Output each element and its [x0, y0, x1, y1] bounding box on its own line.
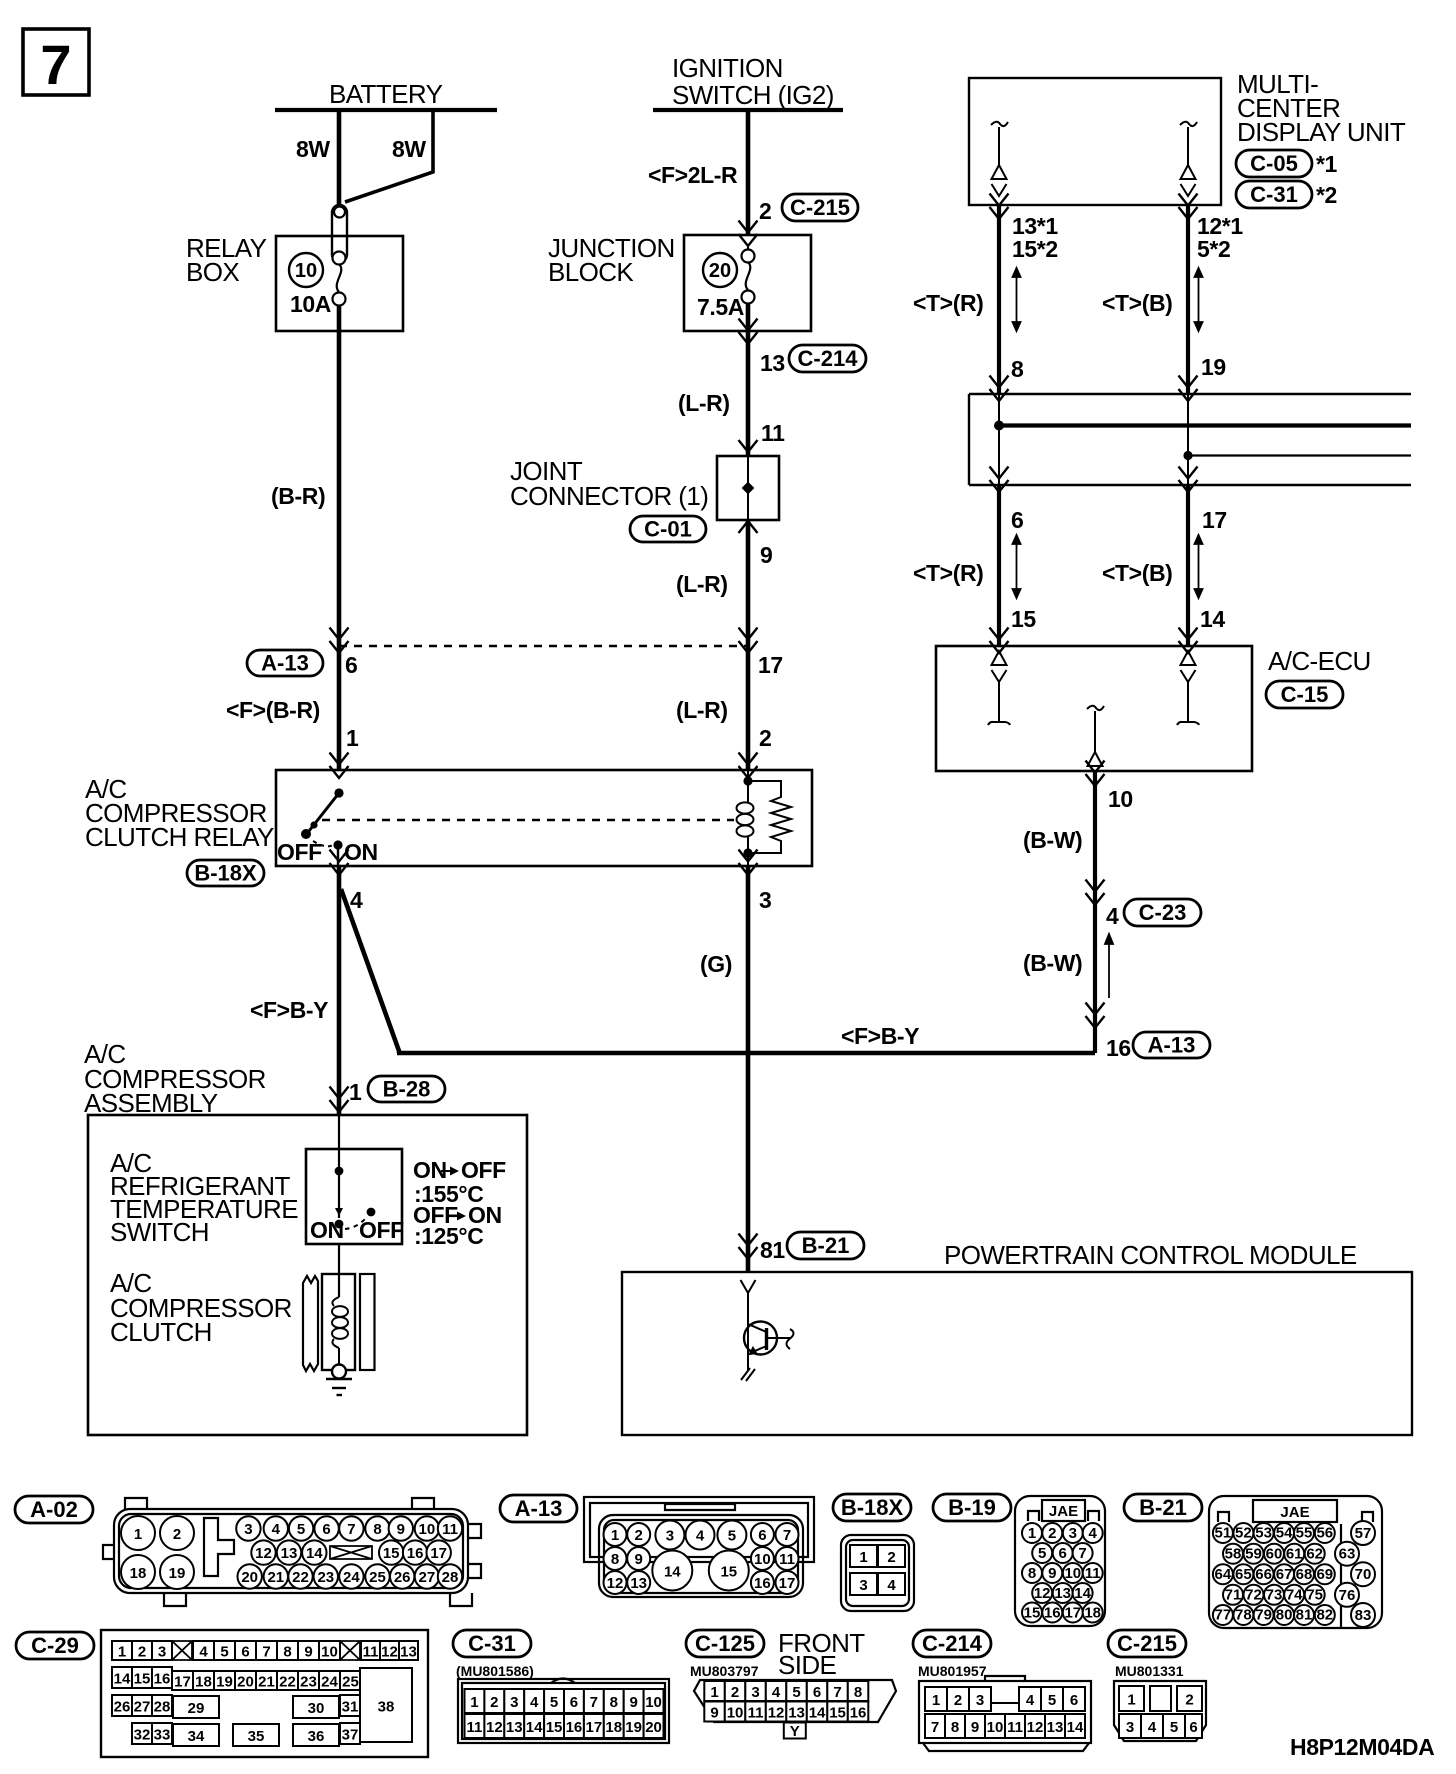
twisted pair arrow left	[1013, 268, 1021, 331]
svg-text:76: 76	[1339, 1587, 1356, 1604]
svg-text:A/C-ECU: A/C-ECU	[1268, 646, 1371, 676]
svg-text:(L-R): (L-R)	[676, 697, 728, 723]
svg-text:12: 12	[486, 1719, 503, 1736]
svg-text:10: 10	[987, 1719, 1004, 1736]
svg-text:2: 2	[759, 725, 771, 751]
svg-text:<T>(R): <T>(R)	[913, 290, 983, 316]
svg-text:MU801957: MU801957	[918, 1663, 987, 1679]
svg-text:2: 2	[138, 1643, 146, 1660]
svg-text:7: 7	[40, 33, 71, 96]
svg-text:9: 9	[760, 542, 772, 568]
wire B-R relay box to relay	[337, 305, 342, 771]
svg-text:4: 4	[530, 1694, 539, 1711]
svg-text:2: 2	[173, 1526, 181, 1543]
svg-text:51: 51	[1215, 1525, 1232, 1542]
wire L-R junction to joint connector	[746, 303, 751, 456]
svg-text:11: 11	[1007, 1719, 1023, 1736]
connector label A-13	[247, 650, 323, 676]
svg-text:C-29: C-29	[31, 1633, 79, 1658]
svg-text:26: 26	[114, 1698, 131, 1715]
joint connector box	[717, 456, 779, 520]
svg-text:1: 1	[932, 1692, 940, 1709]
svg-text:5: 5	[220, 1643, 228, 1660]
connector label A-02	[15, 1496, 93, 1523]
svg-text:81: 81	[760, 1237, 785, 1263]
svg-text:4: 4	[696, 1527, 705, 1544]
svg-text:18: 18	[130, 1565, 147, 1582]
wire MCDU right drop	[1186, 205, 1190, 394]
svg-text:C-125: C-125	[695, 1631, 755, 1656]
svg-text:B-19: B-19	[948, 1495, 996, 1520]
svg-text:C-15: C-15	[1281, 682, 1329, 707]
svg-text:33: 33	[154, 1726, 171, 1743]
relay ON contact	[333, 840, 342, 849]
svg-text:4: 4	[272, 1521, 281, 1538]
connector B-19 body	[1015, 1496, 1105, 1626]
fuse 10 circled	[289, 253, 323, 287]
svg-text:23: 23	[300, 1673, 317, 1690]
svg-text:64: 64	[1215, 1566, 1232, 1583]
A/C compressor clutch relay box	[276, 770, 812, 866]
svg-text:3: 3	[751, 1684, 759, 1701]
svg-text:66: 66	[1255, 1566, 1272, 1583]
svg-text:5: 5	[1048, 1692, 1056, 1709]
svg-text:73: 73	[1266, 1586, 1283, 1603]
svg-text:C-214: C-214	[798, 346, 859, 371]
svg-text:B-28: B-28	[383, 1077, 431, 1102]
svg-text:19: 19	[1201, 354, 1226, 380]
page number 7 box	[23, 29, 89, 96]
svg-text:32: 32	[134, 1726, 151, 1743]
svg-text:8W: 8W	[392, 136, 426, 162]
connector B-18X body	[841, 1535, 914, 1611]
svg-text:19: 19	[169, 1565, 186, 1582]
svg-text:8: 8	[373, 1521, 381, 1538]
wire into temp switch	[338, 1115, 340, 1171]
connector label B-18X	[833, 1494, 911, 1521]
clutch coil	[332, 1297, 348, 1364]
svg-text:2: 2	[759, 198, 771, 224]
svg-text:70: 70	[1355, 1566, 1372, 1583]
B-18X pins	[850, 1545, 905, 1595]
ground	[326, 1379, 352, 1395]
wires inside intermediate box	[998, 394, 1000, 485]
svg-text:5: 5	[297, 1521, 305, 1538]
svg-text:B-21: B-21	[802, 1233, 850, 1258]
svg-text:7: 7	[590, 1694, 598, 1711]
svg-text:H8P12M04DA: H8P12M04DA	[1290, 1734, 1434, 1760]
svg-text:17: 17	[1064, 1605, 1081, 1622]
A-13 inline connector dashed line	[339, 645, 748, 647]
svg-text:SWITCH (IG2): SWITCH (IG2)	[672, 80, 834, 110]
connector label C-01	[630, 516, 706, 542]
svg-text:18: 18	[195, 1673, 212, 1690]
svg-text:3: 3	[510, 1694, 518, 1711]
connector C-31 body	[458, 1679, 669, 1744]
svg-text:4: 4	[1106, 903, 1119, 929]
svg-text:10: 10	[321, 1643, 338, 1660]
svg-text:72: 72	[1245, 1586, 1262, 1603]
ignition bus	[653, 108, 843, 112]
svg-text:19: 19	[625, 1719, 642, 1736]
svg-text:BATTERY: BATTERY	[329, 79, 443, 109]
connector label B-21	[1124, 1494, 1202, 1521]
svg-text:62: 62	[1306, 1545, 1323, 1562]
svg-text:17: 17	[779, 1575, 796, 1592]
clutch ground terminal	[332, 1365, 346, 1379]
svg-text:22: 22	[292, 1569, 309, 1586]
svg-text:15*2: 15*2	[1012, 236, 1058, 262]
svg-text:Y: Y	[790, 1723, 800, 1740]
svg-text:15: 15	[1011, 606, 1036, 632]
svg-text:58: 58	[1225, 1545, 1242, 1562]
bus line to right 2	[1188, 454, 1411, 456]
svg-text:13: 13	[1047, 1719, 1064, 1736]
relay box	[276, 236, 403, 331]
connector crossing C-215	[739, 221, 758, 233]
svg-text:5: 5	[792, 1684, 800, 1701]
svg-text:9: 9	[971, 1719, 979, 1736]
svg-text:SIDE: SIDE	[778, 1650, 837, 1680]
svg-text:81: 81	[1296, 1607, 1313, 1624]
svg-text:11: 11	[442, 1521, 458, 1538]
svg-text:12: 12	[607, 1575, 624, 1592]
svg-text:18: 18	[605, 1719, 622, 1736]
joint node	[742, 482, 755, 495]
svg-text:16: 16	[1106, 1035, 1131, 1061]
svg-text:7: 7	[833, 1684, 841, 1701]
connector C-214 body	[919, 1676, 1091, 1751]
svg-text:(L-R): (L-R)	[678, 390, 730, 416]
svg-text:77: 77	[1215, 1607, 1232, 1624]
svg-text:1: 1	[118, 1643, 126, 1660]
svg-text:IGNITION: IGNITION	[672, 53, 783, 83]
svg-text:35: 35	[248, 1728, 265, 1745]
svg-text:10: 10	[727, 1704, 744, 1721]
svg-text:(L-R): (L-R)	[676, 571, 728, 597]
svg-text:63: 63	[1339, 1546, 1356, 1563]
svg-text:4: 4	[199, 1643, 208, 1660]
svg-text:30: 30	[308, 1700, 325, 1717]
B-19 pins	[1022, 1523, 1103, 1623]
connector label C-214	[913, 1630, 991, 1657]
svg-text:2: 2	[635, 1527, 643, 1544]
svg-text:<T>(B): <T>(B)	[1102, 290, 1172, 316]
svg-text:16: 16	[850, 1704, 867, 1721]
svg-text:7: 7	[262, 1643, 270, 1660]
svg-text:C-23: C-23	[1139, 900, 1187, 925]
wire B-Y diagonal	[341, 889, 399, 1053]
svg-text:JAE: JAE	[1049, 1503, 1078, 1520]
svg-text:B-21: B-21	[1139, 1495, 1187, 1520]
svg-text:<F>B-Y: <F>B-Y	[841, 1023, 919, 1049]
svg-text:25: 25	[369, 1569, 386, 1586]
svg-text:29: 29	[188, 1700, 205, 1717]
connector crossing A-13 right	[1086, 1003, 1105, 1015]
A-02 pins	[121, 1516, 462, 1589]
svg-text:8: 8	[611, 1551, 619, 1568]
svg-text:28: 28	[154, 1698, 171, 1715]
svg-text:14: 14	[1067, 1719, 1084, 1736]
svg-text:74: 74	[1286, 1586, 1303, 1603]
svg-text:16: 16	[566, 1719, 583, 1736]
wire MCDU left drop	[997, 205, 1001, 394]
connector label C-31	[453, 1630, 531, 1657]
connector label C-125	[686, 1630, 764, 1657]
svg-text:*1: *1	[1316, 151, 1338, 177]
svg-text:2: 2	[954, 1692, 962, 1709]
relay switch to pin4 wire	[337, 845, 339, 866]
relay switch contact top	[334, 788, 343, 797]
svg-text:7.5A: 7.5A	[697, 294, 744, 320]
svg-text:10: 10	[1064, 1565, 1081, 1582]
relay resistor	[748, 781, 791, 853]
connector crossing B-21	[739, 1234, 758, 1246]
svg-text:21: 21	[267, 1569, 284, 1586]
svg-text:20: 20	[645, 1719, 662, 1736]
svg-text:65: 65	[1235, 1566, 1252, 1583]
intermediate box top crossings	[990, 376, 1009, 388]
svg-text:4: 4	[1089, 1525, 1098, 1542]
connector label C-23	[1124, 899, 1201, 926]
svg-text:15: 15	[1024, 1605, 1041, 1622]
svg-text:78: 78	[1235, 1607, 1252, 1624]
svg-text:14: 14	[1200, 606, 1225, 632]
svg-text:4: 4	[772, 1684, 781, 1701]
svg-text:A-13: A-13	[515, 1496, 563, 1521]
twisted pair arrow right 2	[1195, 535, 1203, 598]
svg-text:2: 2	[490, 1694, 498, 1711]
svg-text:CONNECTOR (1): CONNECTOR (1)	[510, 481, 708, 511]
A-13 pins	[604, 1521, 799, 1595]
svg-text:79: 79	[1255, 1607, 1272, 1624]
connector label C-215	[1108, 1630, 1186, 1657]
wire B-Y horizontal run	[397, 1051, 1095, 1056]
svg-text:(B-W): (B-W)	[1023, 950, 1082, 976]
svg-text:31: 31	[342, 1698, 359, 1715]
svg-text:A-13: A-13	[261, 651, 309, 676]
svg-text:13: 13	[788, 1704, 805, 1721]
svg-text:54: 54	[1276, 1525, 1293, 1542]
svg-text:10: 10	[754, 1551, 771, 1568]
svg-text:71: 71	[1225, 1586, 1242, 1603]
svg-text:17: 17	[1202, 507, 1227, 533]
svg-text:8: 8	[951, 1719, 959, 1736]
clutch right plate	[360, 1274, 375, 1370]
svg-text:1: 1	[859, 1549, 867, 1566]
svg-text:3: 3	[1126, 1719, 1134, 1736]
svg-text:13: 13	[630, 1575, 647, 1592]
svg-text:38: 38	[378, 1698, 395, 1715]
wire battery main drop	[337, 110, 342, 206]
relay coil node top	[743, 776, 752, 785]
svg-text:56: 56	[1316, 1525, 1333, 1542]
connector A-02 body	[103, 1498, 481, 1606]
svg-text:ON: ON	[310, 1217, 344, 1243]
svg-text:16: 16	[154, 1670, 171, 1687]
relay switch arm	[309, 793, 339, 831]
connector crossing C-214	[739, 319, 758, 331]
svg-text:75: 75	[1306, 1586, 1323, 1603]
ECU center terminal	[1087, 706, 1104, 766]
svg-text:17: 17	[430, 1545, 447, 1562]
svg-text:13: 13	[400, 1643, 417, 1660]
svg-text:13: 13	[1054, 1585, 1071, 1602]
svg-text:4: 4	[1148, 1719, 1157, 1736]
wire to ECU left	[997, 485, 1001, 646]
fuse element junction	[742, 247, 755, 304]
svg-text:3: 3	[666, 1527, 674, 1544]
junction block box	[684, 235, 811, 331]
svg-text:<T>(R): <T>(R)	[913, 560, 983, 586]
connector C-125 body	[694, 1680, 896, 1722]
svg-text:5: 5	[1038, 1545, 1046, 1562]
wire battery right branch	[345, 110, 433, 202]
svg-text:16: 16	[754, 1575, 771, 1592]
svg-text:OFF: OFF	[461, 1157, 506, 1183]
svg-text:3: 3	[976, 1692, 984, 1709]
connector label C-214	[789, 345, 866, 372]
svg-text:C-214: C-214	[922, 1631, 983, 1656]
svg-text:15: 15	[546, 1719, 563, 1736]
twisted pair arrow left 2	[1013, 535, 1021, 598]
svg-text:10: 10	[645, 1694, 662, 1711]
wire inside joint connector	[747, 456, 749, 520]
svg-text:8: 8	[854, 1684, 862, 1701]
svg-text:36: 36	[308, 1728, 325, 1745]
svg-text:10: 10	[295, 260, 317, 282]
ECU internal terminal x=1188	[1177, 651, 1199, 725]
svg-text:60: 60	[1266, 1545, 1283, 1562]
connector B-21 body	[1209, 1496, 1382, 1628]
svg-text:7: 7	[783, 1527, 791, 1544]
svg-text:28: 28	[442, 1569, 459, 1586]
svg-text:6: 6	[813, 1684, 821, 1701]
connector crossing B-28	[330, 1087, 349, 1099]
fuse element	[333, 264, 346, 306]
svg-text:8: 8	[1028, 1565, 1036, 1582]
svg-text:8: 8	[283, 1643, 291, 1660]
transistor emitter ground	[741, 1355, 755, 1381]
svg-text:B-18X: B-18X	[194, 861, 257, 886]
svg-text:11: 11	[363, 1643, 379, 1660]
svg-text:11: 11	[761, 420, 785, 446]
wire temp switch to clutch	[338, 1244, 340, 1297]
svg-text:(MU801586): (MU801586)	[456, 1663, 534, 1679]
svg-text:3: 3	[244, 1521, 252, 1538]
svg-text:10A: 10A	[290, 291, 331, 317]
svg-text:(B-R): (B-R)	[271, 483, 325, 509]
svg-text:POWERTRAIN CONTROL MODULE: POWERTRAIN CONTROL MODULE	[944, 1240, 1357, 1270]
junction node right	[1183, 451, 1192, 460]
svg-text:1: 1	[134, 1526, 142, 1543]
svg-text:80: 80	[1276, 1607, 1293, 1624]
svg-text:11: 11	[1085, 1565, 1101, 1582]
svg-text:27: 27	[419, 1569, 436, 1586]
svg-text:12: 12	[255, 1545, 272, 1562]
svg-text:<F>B-Y: <F>B-Y	[250, 997, 328, 1023]
connector label C-215	[782, 194, 858, 221]
clutch coil housing	[322, 1274, 355, 1370]
svg-text:8: 8	[1011, 356, 1024, 382]
svg-text:C-31: C-31	[1250, 182, 1298, 207]
svg-text:16: 16	[407, 1545, 424, 1562]
wire IG2 drop 2L-R	[746, 110, 751, 235]
connector crossing joint top	[739, 440, 758, 452]
svg-text:6: 6	[1011, 507, 1023, 533]
svg-text:6: 6	[241, 1643, 249, 1660]
intermediate connector box	[969, 394, 1411, 485]
bus line to right 1	[999, 423, 1411, 427]
svg-text:14: 14	[809, 1704, 826, 1721]
wire relay pin4 down	[337, 866, 342, 1115]
MCDU pin crossings	[990, 194, 1009, 206]
svg-text:5: 5	[550, 1694, 558, 1711]
svg-text:20: 20	[237, 1673, 254, 1690]
MCDU internal terminal x=999	[991, 122, 1008, 196]
svg-text:1: 1	[346, 725, 359, 751]
svg-text:6: 6	[1189, 1719, 1197, 1736]
svg-text:7: 7	[347, 1521, 355, 1538]
connector label C-15	[1266, 681, 1343, 708]
svg-text:C-215: C-215	[1117, 1631, 1177, 1656]
svg-text:5: 5	[728, 1527, 736, 1544]
svg-text:12: 12	[381, 1643, 398, 1660]
wire to ECU right	[1186, 485, 1190, 646]
svg-text:(B-W): (B-W)	[1023, 827, 1082, 853]
svg-text:52: 52	[1235, 1525, 1252, 1542]
temp switch OFF contact	[367, 1208, 376, 1217]
transistor Q	[744, 1293, 794, 1355]
temp switch box	[306, 1149, 402, 1244]
svg-text:9: 9	[397, 1521, 405, 1538]
relay entry crossings	[330, 753, 349, 765]
svg-text:15: 15	[720, 1564, 737, 1581]
svg-text:25: 25	[342, 1673, 359, 1690]
svg-text:5: 5	[1170, 1719, 1178, 1736]
svg-text:17: 17	[174, 1673, 191, 1690]
svg-text:68: 68	[1296, 1566, 1313, 1583]
wire L-R joint to relay	[746, 520, 751, 771]
temp switch arm	[338, 1171, 340, 1218]
svg-text:A-13: A-13	[1148, 1033, 1196, 1058]
svg-text:53: 53	[1255, 1525, 1272, 1542]
svg-text:15: 15	[829, 1704, 846, 1721]
svg-text:C-05: C-05	[1250, 151, 1298, 176]
svg-text:15: 15	[134, 1670, 151, 1687]
svg-text:2: 2	[1185, 1691, 1193, 1708]
svg-text:55: 55	[1296, 1525, 1313, 1542]
connector label B-28	[368, 1076, 445, 1102]
svg-text:18: 18	[1084, 1605, 1101, 1622]
relay switch dashed throw	[313, 841, 333, 846]
svg-text:A-02: A-02	[30, 1497, 78, 1522]
svg-text:12: 12	[1034, 1585, 1051, 1602]
svg-text:6: 6	[570, 1694, 578, 1711]
svg-text:20: 20	[241, 1569, 258, 1586]
svg-text:3: 3	[158, 1643, 166, 1660]
svg-text:82: 82	[1316, 1607, 1333, 1624]
relay coil	[737, 771, 754, 866]
svg-text:14: 14	[526, 1719, 543, 1736]
relay exit crossings	[330, 850, 349, 862]
clutch left plate	[303, 1276, 318, 1371]
svg-text:6: 6	[758, 1527, 766, 1544]
svg-text:9: 9	[635, 1551, 643, 1568]
svg-text:1: 1	[1127, 1691, 1135, 1708]
svg-text:2: 2	[1048, 1525, 1056, 1542]
svg-text:11: 11	[467, 1719, 483, 1736]
